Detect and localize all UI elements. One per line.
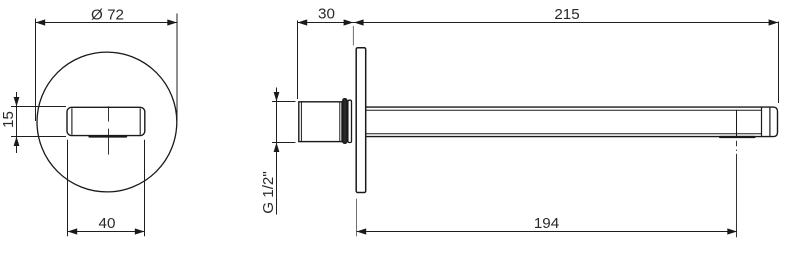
end cap line 2: [769, 107, 771, 137]
dim Ø72 arrow right: [167, 19, 177, 25]
dim 40 extension line left: [67, 140, 69, 236]
threaded nipple G1/2 body: [299, 102, 342, 142]
dim 194 arrow right: [727, 228, 737, 234]
dim G1/2 dimension line: [276, 88, 278, 215]
dim 40 arrow right: [135, 228, 145, 234]
outlet slot (underside): [719, 136, 756, 138]
dim 30/215 dimension line: [298, 22, 779, 24]
wall plate (side view): [356, 48, 366, 193]
dim 40 dimension line: [68, 231, 145, 233]
dim 15 extension line top: [11, 106, 66, 108]
dim 194 arrow left: [357, 228, 367, 234]
dim 40 arrow left: [68, 228, 78, 234]
svg-text:215: 215: [554, 6, 579, 23]
svg-text:Ø 72: Ø 72: [91, 7, 124, 24]
nipple chamfer line left: [300, 102, 302, 141]
dim 30 arrow right (at plate): [344, 19, 354, 25]
dim G1/2 extension line bottom: [272, 142, 296, 144]
dim 30/215 extension line at nipple left: [297, 21, 299, 100]
dim 30 arrow left: [298, 19, 308, 25]
dim 15 arrow top (pointing down): [14, 97, 20, 107]
dim 30/215 extension line at wall plate: [352, 26, 354, 46]
tube inner top line: [366, 109, 762, 111]
svg-text:30: 30: [318, 6, 335, 23]
dim 15 dimension line: [16, 92, 18, 153]
outlet axis line inside tube: [736, 110, 738, 137]
spout body inner left line: [71, 108, 73, 135]
dim G1/2 arrow top (pointing down): [274, 92, 280, 102]
dim G1/2 extension line top: [272, 101, 296, 103]
water outlet slot (front): [88, 135, 127, 137]
svg-text:40: 40: [99, 215, 116, 232]
dim 215 arrow left (at plate): [354, 19, 364, 25]
dim 194 dimension line: [357, 231, 738, 233]
svg-text:G 1/2": G 1/2": [260, 171, 277, 214]
spout body inner right line: [139, 108, 141, 135]
dim 15 extension line bottom: [11, 136, 66, 138]
vertical centerline of front view: [108, 106, 110, 154]
nipple chamfer line right: [339, 102, 341, 141]
dim Ø72 arrow left: [36, 19, 46, 25]
dim G1/2 arrow bottom (pointing up): [274, 143, 280, 153]
dim 194 extension line left (below plate): [356, 199, 358, 237]
dim 15 arrow bottom (pointing up): [14, 137, 20, 147]
dim Ø72 extension line right: [176, 14, 178, 122]
svg-text:194: 194: [534, 215, 559, 232]
dim 215 arrow right: [769, 19, 779, 25]
spout body front (rounded rectangle): [67, 107, 145, 135]
dim Ø72 extension line left: [35, 19, 37, 122]
collar ring A: [343, 99, 347, 144]
dim 40 extension line right: [144, 140, 146, 236]
end cap line 1: [761, 107, 763, 137]
outlet centerline (dash-dot) below tube: [736, 141, 738, 238]
tube inner bottom line: [366, 133, 762, 135]
collar ring B: [348, 100, 352, 142]
wall plate circle (front view): [37, 52, 177, 192]
svg-text:15: 15: [0, 111, 17, 128]
dim Ø72 dimension line: [36, 22, 178, 24]
spout tube outline: [366, 107, 778, 137]
dim 215 extension line at tube end: [778, 22, 780, 104]
